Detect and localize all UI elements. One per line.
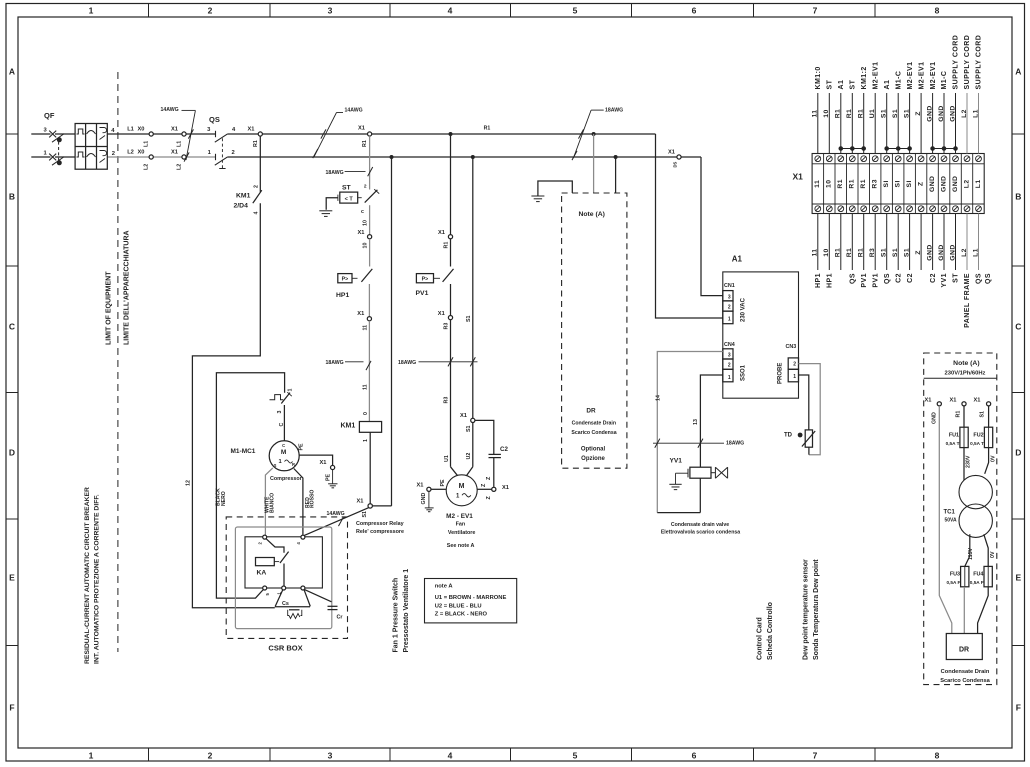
svg-text:S1: S1 — [466, 425, 472, 432]
svg-text:0,5A T: 0,5A T — [970, 441, 984, 446]
drain device DR — [946, 634, 982, 660]
svg-text:FU4: FU4 — [973, 572, 983, 578]
svg-text:HP1: HP1 — [336, 292, 349, 299]
frame row tick marks left — [6, 134, 18, 646]
start capacitor Cs — [275, 590, 283, 607]
svg-text:Fan 1 Pressure Switch: Fan 1 Pressure Switch — [393, 578, 400, 653]
svg-text:A1: A1 — [732, 255, 743, 264]
note A color legend box — [425, 579, 517, 623]
frame column numbers bottom — [89, 751, 940, 761]
wire FU2 to TC1 — [985, 448, 989, 474]
svg-text:SUPPLY CORD: SUPPLY CORD — [976, 35, 983, 90]
svg-text:M2-EV1: M2-EV1 — [930, 62, 937, 90]
svg-text:3: 3 — [328, 6, 333, 16]
svg-text:PANEL FRAME: PANEL FRAME — [964, 273, 971, 328]
svg-text:5: 5 — [573, 751, 578, 761]
svg-text:X1: X1 — [417, 482, 424, 488]
svg-text:S1: S1 — [892, 248, 899, 257]
terminal strip net labels — [814, 176, 982, 192]
QF magnetic elements — [87, 131, 96, 158]
wire FU1 to TC1 — [963, 448, 965, 481]
frame row letters right — [1015, 67, 1021, 713]
fuse FU4 — [984, 566, 992, 586]
svg-text:6: 6 — [692, 6, 697, 16]
svg-text:230V: 230V — [965, 455, 971, 468]
terminal strip bottom wires — [818, 214, 979, 271]
svg-text:230 VAC: 230 VAC — [741, 297, 747, 322]
svg-text:P>: P> — [422, 277, 429, 283]
relay KA coil — [256, 558, 275, 566]
svg-text:2/D4: 2/D4 — [234, 203, 249, 210]
svg-text:R1: R1 — [858, 109, 865, 119]
wire black compressor feed — [216, 373, 284, 598]
svg-text:2: 2 — [253, 185, 259, 188]
svg-text:Control Card: Control Card — [757, 617, 764, 660]
svg-text:R1: R1 — [835, 109, 842, 119]
wire FU4 to DR — [978, 587, 989, 634]
svg-text:L1: L1 — [972, 109, 979, 118]
wire down to KM1 coil — [368, 321, 370, 422]
svg-text:SUPPLY CORD: SUPPLY CORD — [953, 35, 960, 90]
svg-text:10: 10 — [363, 220, 369, 226]
wire TC1 secondary to FU4 — [984, 534, 988, 566]
svg-text:0,5A T: 0,5A T — [946, 441, 960, 446]
QF terminal marks — [49, 131, 56, 161]
svg-text:R1: R1 — [835, 248, 842, 258]
svg-text:12: 12 — [186, 480, 192, 486]
svg-text:ST: ST — [850, 79, 857, 89]
wire FU3 to DR — [963, 587, 965, 634]
svg-text:S: S — [274, 463, 277, 468]
svg-text:1: 1 — [89, 6, 94, 16]
wire L1 phase line top — [31, 133, 50, 135]
svg-text:Dew point temperature sensor: Dew point temperature sensor — [803, 559, 810, 660]
wire white motor S to CSR — [265, 468, 272, 535]
svg-text:2: 2 — [364, 184, 367, 190]
svg-text:DR: DR — [959, 647, 969, 654]
terminal X0 on L2 — [149, 155, 153, 159]
wire loop bottom — [657, 512, 700, 514]
svg-text:TC1: TC1 — [944, 510, 956, 516]
svg-text:X1: X1 — [358, 126, 365, 132]
svg-text:GND: GND — [926, 244, 933, 260]
wire C2 to fan Z — [477, 488, 491, 490]
wire L1 to note A box — [593, 134, 595, 193]
svg-text:See note A: See note A — [447, 543, 475, 549]
svg-text:GND: GND — [949, 105, 956, 121]
terminal strip X1 body — [812, 154, 984, 214]
svg-text:L2: L2 — [961, 248, 968, 257]
svg-text:R1: R1 — [444, 242, 450, 249]
svg-text:10: 10 — [363, 243, 369, 249]
svg-text:R: R — [292, 462, 295, 467]
svg-text:C: C — [282, 443, 285, 448]
wire diagonal X1 to CSR node 4 — [304, 508, 368, 536]
svg-text:M2-EV1: M2-EV1 — [872, 62, 879, 90]
svg-text:C: C — [279, 423, 285, 427]
svg-text:FU2: FU2 — [973, 433, 983, 439]
svg-text:X1: X1 — [438, 230, 445, 236]
svg-text:U2 = BLUE - BLU: U2 = BLUE - BLU — [435, 604, 482, 610]
svg-text:R3: R3 — [872, 179, 879, 189]
wire KM1 coil to X1 — [369, 432, 371, 503]
svg-text:Z: Z — [917, 181, 924, 186]
svg-text:M2-EV1: M2-EV1 — [918, 62, 925, 90]
svg-text:X1: X1 — [171, 150, 178, 156]
svg-text:2: 2 — [112, 151, 115, 157]
svg-text:1: 1 — [728, 375, 731, 381]
svg-text:4: 4 — [253, 212, 259, 215]
svg-text:C: C — [9, 322, 15, 332]
fan PE wire — [431, 488, 446, 490]
svg-text:2: 2 — [231, 150, 234, 156]
svg-text:Rele' compressore: Rele' compressore — [356, 529, 404, 535]
svg-text:DS: DS — [673, 161, 678, 167]
svg-text:X0: X0 — [138, 127, 145, 133]
svg-text:Optional: Optional — [581, 446, 606, 452]
svg-text:X0: X0 — [138, 150, 145, 156]
svg-text:S1: S1 — [892, 109, 899, 118]
svg-text:GND: GND — [940, 176, 947, 192]
QS contact poles — [215, 131, 228, 165]
compressor overload protector — [270, 395, 284, 400]
svg-text:C2: C2 — [907, 273, 914, 283]
svg-text:Sonda Temperatura Dew point: Sonda Temperatura Dew point — [813, 559, 820, 660]
svg-text:L1: L1 — [972, 248, 979, 257]
svg-text:PE: PE — [299, 443, 305, 451]
wire from L1 down to ST contact — [369, 136, 371, 189]
ground at ST — [319, 211, 332, 217]
svg-text:230V/1Ph/60Hz: 230V/1Ph/60Hz — [945, 371, 986, 377]
wire L2 drop to CN1 pin3 — [701, 157, 723, 296]
svg-text:18AWG: 18AWG — [326, 360, 344, 366]
wire overload to motor C — [283, 405, 285, 441]
QF thermal elements — [77, 129, 85, 157]
svg-text:GND: GND — [932, 412, 938, 424]
svg-text:S1: S1 — [466, 315, 472, 322]
svg-text:BIANCO: BIANCO — [270, 493, 276, 513]
ST ground lead — [337, 195, 339, 201]
svg-text:GND: GND — [421, 493, 427, 505]
svg-text:Scheda Controllo: Scheda Controllo — [767, 602, 774, 660]
CSR node 1 — [282, 586, 286, 590]
frame row tick marks right — [1012, 134, 1025, 646]
svg-text:M1-C: M1-C — [941, 71, 948, 90]
svg-text:14: 14 — [655, 395, 661, 401]
svg-text:D: D — [1015, 448, 1021, 458]
wire S1 riser B to fan — [472, 423, 474, 467]
svg-text:Cs: Cs — [282, 601, 289, 607]
fuse FU1 — [963, 406, 965, 427]
CSR node 5 — [263, 586, 267, 590]
QS linkage dashed — [221, 138, 223, 168]
svg-text:D: D — [9, 448, 15, 458]
svg-text:SSO1: SSO1 — [741, 364, 747, 381]
frame row letters left — [9, 67, 15, 713]
svg-text:3: 3 — [728, 294, 731, 300]
wire to HP1 — [369, 239, 371, 267]
svg-text:M2-EV1: M2-EV1 — [907, 62, 914, 90]
svg-text:2: 2 — [728, 363, 731, 369]
svg-text:115V: 115V — [968, 547, 974, 560]
svg-text:10: 10 — [823, 109, 830, 117]
svg-text:R3: R3 — [444, 323, 450, 330]
svg-text:DR: DR — [586, 408, 596, 415]
svg-text:R1: R1 — [956, 411, 962, 418]
svg-text:c: c — [361, 209, 364, 215]
CSR node 4 bottom — [301, 586, 305, 590]
svg-text:X1: X1 — [950, 397, 957, 403]
run capacitor Cr — [305, 590, 332, 602]
terminal strip bottom source labels — [815, 273, 992, 328]
QF differential elements — [100, 128, 107, 163]
svg-text:Scarico Condensa: Scarico Condensa — [571, 430, 616, 436]
svg-text:C2: C2 — [930, 273, 937, 283]
svg-text:R1: R1 — [253, 140, 259, 147]
terminal X1 on L2 — [182, 155, 186, 159]
svg-text:R1: R1 — [858, 248, 865, 258]
svg-text:X1: X1 — [793, 172, 804, 182]
svg-text:B: B — [1015, 192, 1021, 202]
svg-text:YV1: YV1 — [670, 458, 683, 465]
fuse FU3 — [961, 566, 969, 586]
svg-text:X1: X1 — [974, 397, 981, 403]
svg-text:3: 3 — [728, 352, 731, 358]
svg-text:M2 - EV1: M2 - EV1 — [446, 513, 473, 520]
svg-text:2: 2 — [208, 6, 213, 16]
node junction on L2 at note A — [614, 155, 618, 159]
wire PV1 out — [450, 284, 452, 316]
svg-text:U2: U2 — [466, 453, 472, 460]
svg-text:Cr: Cr — [337, 615, 344, 621]
svg-text:RESIDUAL-CURRENT AUTOMATIC CIR: RESIDUAL-CURRENT AUTOMATIC CIRCUIT BREAK… — [84, 487, 91, 664]
svg-text:X1: X1 — [925, 397, 932, 403]
wire CN3 pin1 to TD — [799, 375, 809, 430]
svg-text:PV1: PV1 — [861, 273, 868, 288]
svg-text:PV1: PV1 — [872, 273, 879, 288]
QF breaker body — [75, 124, 107, 170]
svg-text:U1 = BROWN - MARRONE: U1 = BROWN - MARRONE — [435, 595, 507, 601]
ground at YV1 — [669, 484, 681, 489]
wire 13 CN4 pin1 to YV1 — [700, 375, 722, 467]
svg-text:10: 10 — [823, 248, 830, 256]
svg-text:L1: L1 — [176, 141, 182, 147]
svg-text:Condensate drain valve: Condensate drain valve — [671, 522, 729, 528]
svg-text:0V: 0V — [991, 455, 997, 462]
svg-text:1: 1 — [288, 389, 294, 392]
svg-text:M: M — [459, 483, 465, 490]
svg-text:11: 11 — [363, 384, 369, 390]
svg-text:C: C — [1015, 322, 1021, 332]
wire L1 down to PV1 — [450, 134, 452, 235]
svg-text:X1: X1 — [502, 485, 509, 491]
svg-text:L2: L2 — [144, 164, 150, 170]
wire 12 from KM1 to CSR box — [192, 203, 274, 608]
svg-text:13: 13 — [693, 419, 699, 425]
svg-text:Elettrovalvola scarico condens: Elettrovalvola scarico condensa — [661, 530, 740, 536]
svg-text:FU3: FU3 — [950, 572, 960, 578]
svg-text:14AWG: 14AWG — [161, 107, 179, 113]
wire S1 riser A — [391, 157, 393, 506]
svg-text:GND: GND — [926, 105, 933, 121]
svg-text:X1: X1 — [438, 311, 445, 317]
svg-text:CSR BOX: CSR BOX — [268, 644, 302, 653]
svg-text:11: 11 — [812, 248, 819, 256]
svg-text:CN4: CN4 — [724, 342, 735, 348]
svg-text:S1: S1 — [979, 411, 985, 418]
svg-text:SUPPLY CORD: SUPPLY CORD — [964, 35, 971, 90]
pressure switch HP1 — [338, 274, 352, 283]
svg-text:11: 11 — [363, 325, 369, 331]
svg-text:7: 7 — [813, 751, 818, 761]
svg-text:U1: U1 — [444, 455, 450, 462]
svg-text:R3: R3 — [444, 397, 450, 404]
svg-text:Z = BLACK - NERO: Z = BLACK - NERO — [435, 612, 488, 618]
svg-text:Scarico Condensa: Scarico Condensa — [940, 678, 990, 684]
svg-text:L2: L2 — [961, 109, 968, 118]
svg-text:X1: X1 — [357, 311, 364, 317]
svg-text:ST: ST — [342, 185, 352, 192]
svg-text:INT. AUTOMATICO PROTEZIONE A C: INT. AUTOMATICO PROTEZIONE A CORRENTE DI… — [94, 494, 101, 664]
svg-text:Compressor Relay: Compressor Relay — [356, 521, 404, 527]
svg-text:GND: GND — [938, 105, 945, 121]
cable marker 18AWG at YV1 — [653, 442, 724, 444]
svg-text:L2: L2 — [127, 150, 134, 156]
svg-text:S1: S1 — [362, 511, 368, 518]
wire CN3 pin2 to TD — [799, 364, 821, 455]
svg-text:KM1:0: KM1:0 — [815, 66, 822, 89]
CSR node 2 — [263, 535, 267, 539]
wire ST to terminal 10 — [369, 205, 371, 234]
fuse FU2 — [988, 406, 990, 427]
svg-text:GND: GND — [938, 244, 945, 260]
svg-text:R1: R1 — [362, 140, 368, 147]
svg-text:HP1: HP1 — [827, 273, 834, 288]
svg-text:F: F — [9, 703, 14, 713]
svg-text:X1: X1 — [248, 127, 255, 133]
svg-text:GND: GND — [949, 244, 956, 260]
svg-text:S1: S1 — [903, 109, 910, 118]
svg-text:L2: L2 — [963, 179, 970, 188]
svg-text:S1: S1 — [903, 248, 910, 257]
svg-text:KA: KA — [257, 570, 267, 577]
svg-text:LIMITE DELL'APPARECCHIATURA: LIMITE DELL'APPARECCHIATURA — [124, 230, 131, 345]
note A optional DR dashed box — [562, 193, 627, 468]
terminal strip screws — [815, 156, 982, 212]
svg-text:8: 8 — [935, 6, 940, 16]
svg-text:PE: PE — [326, 473, 332, 481]
svg-text:1: 1 — [89, 751, 94, 761]
ground at compressor — [332, 470, 334, 484]
terminal strip jumpers — [839, 147, 957, 151]
svg-text:14AWG: 14AWG — [327, 511, 345, 517]
wire GND to DR — [939, 406, 952, 634]
svg-text:6: 6 — [692, 751, 697, 761]
svg-text:18AWG: 18AWG — [726, 441, 744, 447]
svg-text:X1: X1 — [668, 149, 675, 155]
CSR gray wire loop — [235, 527, 331, 629]
CSR node 4 top — [301, 535, 305, 539]
CSR relay outline box — [245, 537, 322, 588]
svg-text:KM1: KM1 — [341, 423, 356, 430]
svg-text:18AWG: 18AWG — [398, 360, 416, 366]
svg-text:R1: R1 — [860, 179, 867, 189]
wire red motor R to CSR — [294, 469, 303, 535]
svg-text:2: 2 — [728, 305, 731, 311]
svg-text:E: E — [9, 573, 15, 583]
node junction on L1 at PV1 branch — [449, 132, 453, 136]
wire TC1 secondary to FU3 — [965, 534, 970, 566]
svg-text:A: A — [1015, 67, 1021, 77]
svg-text:X1: X1 — [358, 230, 365, 236]
svg-text:LIMIT OF EQUIPMENT: LIMIT OF EQUIPMENT — [106, 271, 113, 345]
svg-text:11: 11 — [814, 180, 821, 188]
svg-text:L2: L2 — [176, 164, 182, 170]
svg-text:QS: QS — [976, 273, 983, 284]
svg-text:X1: X1 — [460, 413, 467, 419]
node junction on L2 at S1 riser B — [471, 155, 475, 159]
svg-text:P>: P> — [342, 277, 349, 283]
svg-text:50VA: 50VA — [945, 517, 958, 523]
svg-text:R1: R1 — [484, 126, 491, 132]
svg-text:18AWG: 18AWG — [326, 170, 344, 176]
svg-text:A1: A1 — [838, 80, 845, 90]
svg-text:Ventilatore: Ventilatore — [448, 530, 476, 536]
svg-text:FU1: FU1 — [949, 433, 959, 439]
note A transformer dashed box — [924, 353, 997, 685]
svg-text:5: 5 — [573, 6, 578, 16]
svg-text:S1: S1 — [881, 248, 888, 257]
svg-text:X1: X1 — [171, 127, 178, 133]
svg-text:14AWG: 14AWG — [345, 108, 363, 114]
svg-text:Note (A): Note (A) — [578, 211, 604, 218]
wire HP1 out — [368, 284, 370, 317]
svg-text:7: 7 — [813, 6, 818, 16]
svg-text:4: 4 — [448, 6, 453, 16]
wire 14 CN4 pin3 loop — [657, 352, 723, 513]
svg-text:QS: QS — [884, 273, 891, 284]
svg-text:KM1: KM1 — [236, 193, 251, 200]
svg-text:PE: PE — [440, 479, 446, 487]
svg-text:QF: QF — [44, 111, 55, 120]
svg-text:L1: L1 — [975, 179, 982, 188]
svg-text:Fan: Fan — [456, 522, 466, 528]
node junction on L1 at note A — [592, 132, 596, 136]
svg-text:X1: X1 — [357, 498, 364, 504]
wire L2 phase line bottom — [31, 156, 50, 158]
svg-text:C2: C2 — [895, 273, 902, 283]
terminal strip bottom net labels — [812, 244, 980, 260]
svg-text:X1: X1 — [320, 460, 327, 466]
svg-text:L1: L1 — [144, 141, 150, 147]
svg-text:SI: SI — [906, 180, 913, 187]
svg-text:2: 2 — [208, 751, 213, 761]
compressor PE wire — [299, 455, 332, 465]
svg-text:QS: QS — [985, 273, 992, 284]
svg-text:1: 1 — [728, 317, 731, 323]
svg-text:PV1: PV1 — [416, 290, 429, 297]
svg-text:A: A — [9, 67, 15, 77]
svg-text:GND: GND — [929, 176, 936, 192]
svg-text:R1: R1 — [837, 179, 844, 189]
svg-text:R1: R1 — [846, 109, 853, 119]
wire L1 drop to CN1 pin1 — [656, 134, 723, 318]
svg-text:M1-MC1: M1-MC1 — [231, 448, 256, 455]
svg-text:8: 8 — [935, 751, 940, 761]
svg-text:11: 11 — [812, 109, 819, 117]
svg-text:ST: ST — [827, 79, 834, 89]
svg-text:SI: SI — [883, 180, 890, 187]
